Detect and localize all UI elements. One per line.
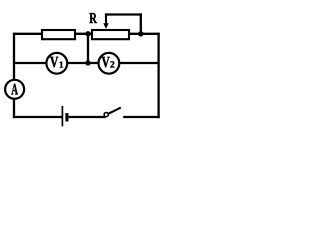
- battery cell short plate: [65, 113, 68, 121]
- wire left: [13, 33, 15, 118]
- battery cell long plate: [61, 106, 63, 126]
- wire bottom middle segment: [69, 116, 106, 118]
- wire top: [13, 33, 160, 35]
- voltmeter V1: [46, 53, 67, 74]
- svg-text:A: A: [11, 81, 18, 98]
- switch S lever: [109, 108, 121, 114]
- rheostat R body: [92, 30, 129, 39]
- svg-text:R: R: [89, 11, 97, 27]
- switch S pivot: [104, 113, 108, 117]
- wire right: [157, 33, 159, 118]
- ammeter A: [5, 80, 24, 99]
- svg-text:V: V: [50, 54, 59, 71]
- svg-text:1: 1: [59, 59, 64, 69]
- node junction bottom: [85, 60, 90, 65]
- rheostat wiper arrow: [103, 15, 108, 29]
- wire middle voltmeter row: [14, 62, 159, 64]
- wire wiper right vertical: [140, 13, 142, 33]
- wire wiper top horizontal: [105, 13, 142, 15]
- svg-text:2: 2: [110, 61, 115, 71]
- node wiper junction: [138, 31, 143, 36]
- wire middle junction vertical: [87, 34, 89, 63]
- resistor R1: [42, 30, 75, 39]
- wire bottom right segment: [123, 116, 160, 118]
- wire bottom left segment: [13, 116, 62, 118]
- voltmeter V2: [99, 53, 120, 74]
- label R: [89, 11, 97, 27]
- node junction top: [85, 31, 90, 36]
